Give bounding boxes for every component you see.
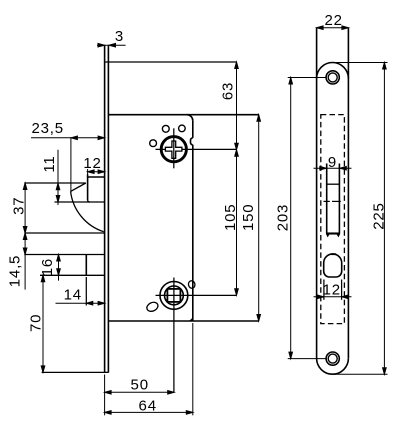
- dimension 12 (deadbolt): [314, 295, 352, 299]
- deadbolt bottom edge + ext for dims 16,70: [40, 274, 105, 276]
- cylinder vertical centerline + ext for dim 50: [173, 278, 175, 393]
- dimension 150: [257, 115, 261, 321]
- svg-text:70: 70: [28, 314, 45, 332]
- spindle cross outlined plus: [165, 141, 182, 158]
- bottom screw hole outer: [326, 352, 339, 365]
- cylinder square follower: [167, 289, 180, 302]
- svg-text:11: 11: [41, 155, 58, 172]
- latch bevel diagonal: [71, 183, 86, 191]
- svg-text:9: 9: [328, 154, 337, 171]
- latch cutout inner line: [327, 183, 340, 185]
- latch bevel arc: [71, 191, 104, 231]
- svg-text:14: 14: [64, 287, 82, 304]
- spindle vertical centerline: [173, 128, 175, 168]
- deadbolt front face: [85, 255, 87, 276]
- lock body bottom-right fillet mark: [187, 316, 193, 322]
- dashed cutout rectangle: [321, 115, 345, 324]
- ext stubs for dim 12: [323, 280, 325, 300]
- dimension 37: [23, 183, 27, 233]
- spindle horizontal centerline + ext for dims 63,105: [156, 148, 237, 150]
- latch bolt bottom edge: [326, 232, 340, 234]
- lock body top-right corner: [187, 115, 193, 121]
- svg-text:14,5: 14,5: [7, 255, 24, 287]
- lock body bottom edge + ext for dim 150: [108, 320, 258, 322]
- cylinder hole inner circle: [165, 286, 184, 305]
- right view plate top arc: [317, 63, 349, 79]
- svg-text:37: 37: [11, 197, 28, 215]
- svg-text:12: 12: [323, 282, 341, 299]
- aux hole left: [150, 140, 157, 147]
- latch cutout right edge: [338, 164, 340, 234]
- right view plate right edge: [347, 28, 349, 359]
- top screw hole outer: [326, 71, 339, 84]
- dimension 64: [105, 323, 193, 415]
- faceplate top edge + ext line for dim 63: [105, 61, 237, 63]
- latch bolt left foot: [326, 234, 329, 237]
- latch cutout left edge: [326, 164, 328, 234]
- latch bolt right foot: [337, 234, 340, 237]
- ext line for dim 14 (deadbolt face extended): [85, 277, 87, 306]
- dimension 63: [235, 62, 239, 150]
- svg-text:3: 3: [115, 28, 124, 45]
- right view plate bottom arc: [317, 358, 349, 374]
- latch cutout dash-dot line: [324, 200, 330, 202]
- spindle hole thick circle: [161, 137, 186, 162]
- svg-text:16: 16: [39, 258, 56, 276]
- top screw hole inner: [328, 73, 337, 82]
- svg-text:64: 64: [139, 397, 157, 414]
- latch stem top edge: [88, 176, 105, 178]
- faceplate bottom cap + ext line for dim 70: [42, 371, 109, 373]
- cylinder horizontal centerline + ext for dim 105: [156, 294, 237, 296]
- aux hole top-right: [179, 125, 186, 132]
- svg-text:63: 63: [220, 82, 237, 100]
- dimension 12 (latch stem): [88, 169, 105, 175]
- latch stem bottom fillet: [88, 200, 90, 202]
- dimension 225: [330, 63, 388, 375]
- dimension 14: [56, 301, 105, 305]
- cylinder hole outer circle: [160, 282, 188, 310]
- svg-text:50: 50: [131, 377, 149, 394]
- lock body right edge lower: [192, 145, 194, 321]
- dimension 70: [41, 275, 45, 372]
- bottom screw hole inner: [328, 354, 337, 363]
- lock body top edge + ext for dim 150: [108, 114, 258, 116]
- dimension 11: [56, 150, 60, 205]
- svg-text:225: 225: [370, 202, 387, 229]
- svg-text:12: 12: [83, 155, 101, 172]
- deadbolt cutout stadium: [324, 254, 342, 277]
- dimension 203: [288, 78, 327, 359]
- dimension 23,5: [31, 136, 105, 192]
- aux hole top-left: [162, 125, 169, 132]
- faceplate side view left edge: [104, 45, 106, 372]
- latch bottom edge + ext for dims 37,14.5: [24, 232, 104, 234]
- dimension 16: [57, 255, 61, 281]
- deadbolt top edge + ext for dims 14.5,16: [24, 254, 104, 256]
- right view plate left edge: [316, 28, 318, 359]
- small ellipse lower-left: [145, 301, 159, 314]
- deadbolt top flat tick: [331, 253, 336, 255]
- lock body right edge upper: [192, 121, 194, 138]
- latch stem left edge: [87, 175, 89, 201]
- small ellipse right: [188, 280, 196, 289]
- latch bottom line + ext for dim 11: [55, 201, 105, 203]
- svg-text:22: 22: [324, 12, 342, 29]
- latch head top edge + ext for dims 37,11: [24, 182, 86, 184]
- dimension 3: [97, 43, 126, 47]
- dimension 22: [317, 26, 349, 30]
- svg-text:203: 203: [275, 204, 292, 231]
- svg-text:105: 105: [222, 204, 239, 231]
- dimension 14,5: [23, 233, 27, 290]
- faceplate side view right edge: [107, 45, 109, 372]
- dimension 50: [105, 375, 175, 416]
- dimension 105: [235, 150, 239, 296]
- dimension 9: [314, 166, 352, 170]
- lock body right edge notch: [191, 138, 193, 145]
- svg-text:150: 150: [240, 204, 257, 231]
- svg-text:23,5: 23,5: [31, 120, 63, 137]
